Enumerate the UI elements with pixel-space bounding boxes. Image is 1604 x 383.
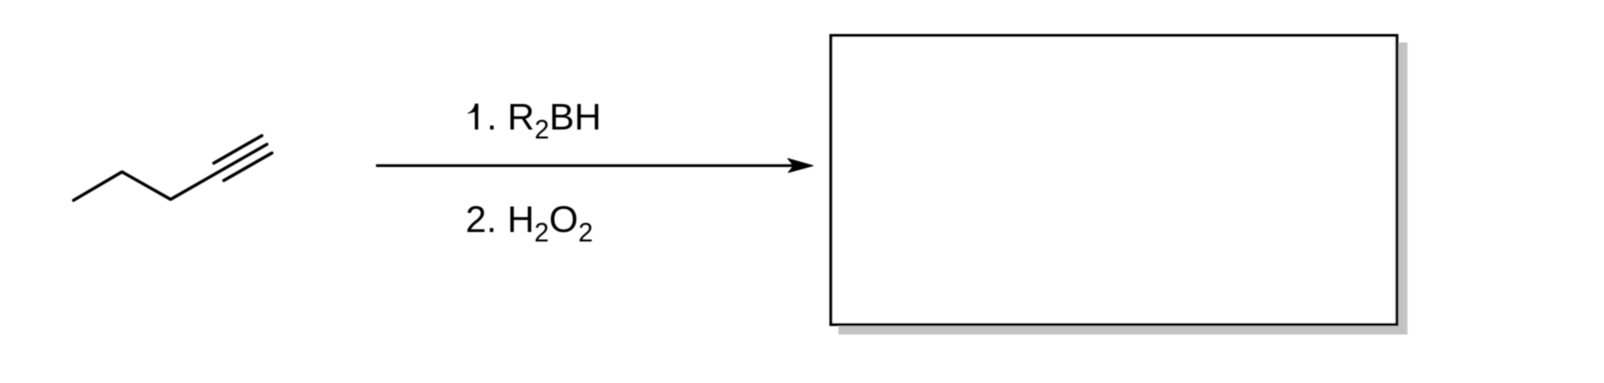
answer box drop shadow [838,43,1407,335]
reagent text line 1 digit 1 (hand-drawn Arial-style): stem [475,104,478,130]
reaction arrowhead [788,159,813,173]
answer box [831,36,1397,325]
svg-text:2. H2O2: 2. H2O2 [466,198,593,247]
reaction arrow shaft [376,164,799,167]
triple bond upper parallel line [214,136,262,164]
triple bond lower parallel line [224,153,272,181]
digit 1 flag [468,104,479,114]
molecule 1-pentyne: chain bonds C1-C2-C3 and collinear C3-C4-C5 center line [74,144,267,200]
